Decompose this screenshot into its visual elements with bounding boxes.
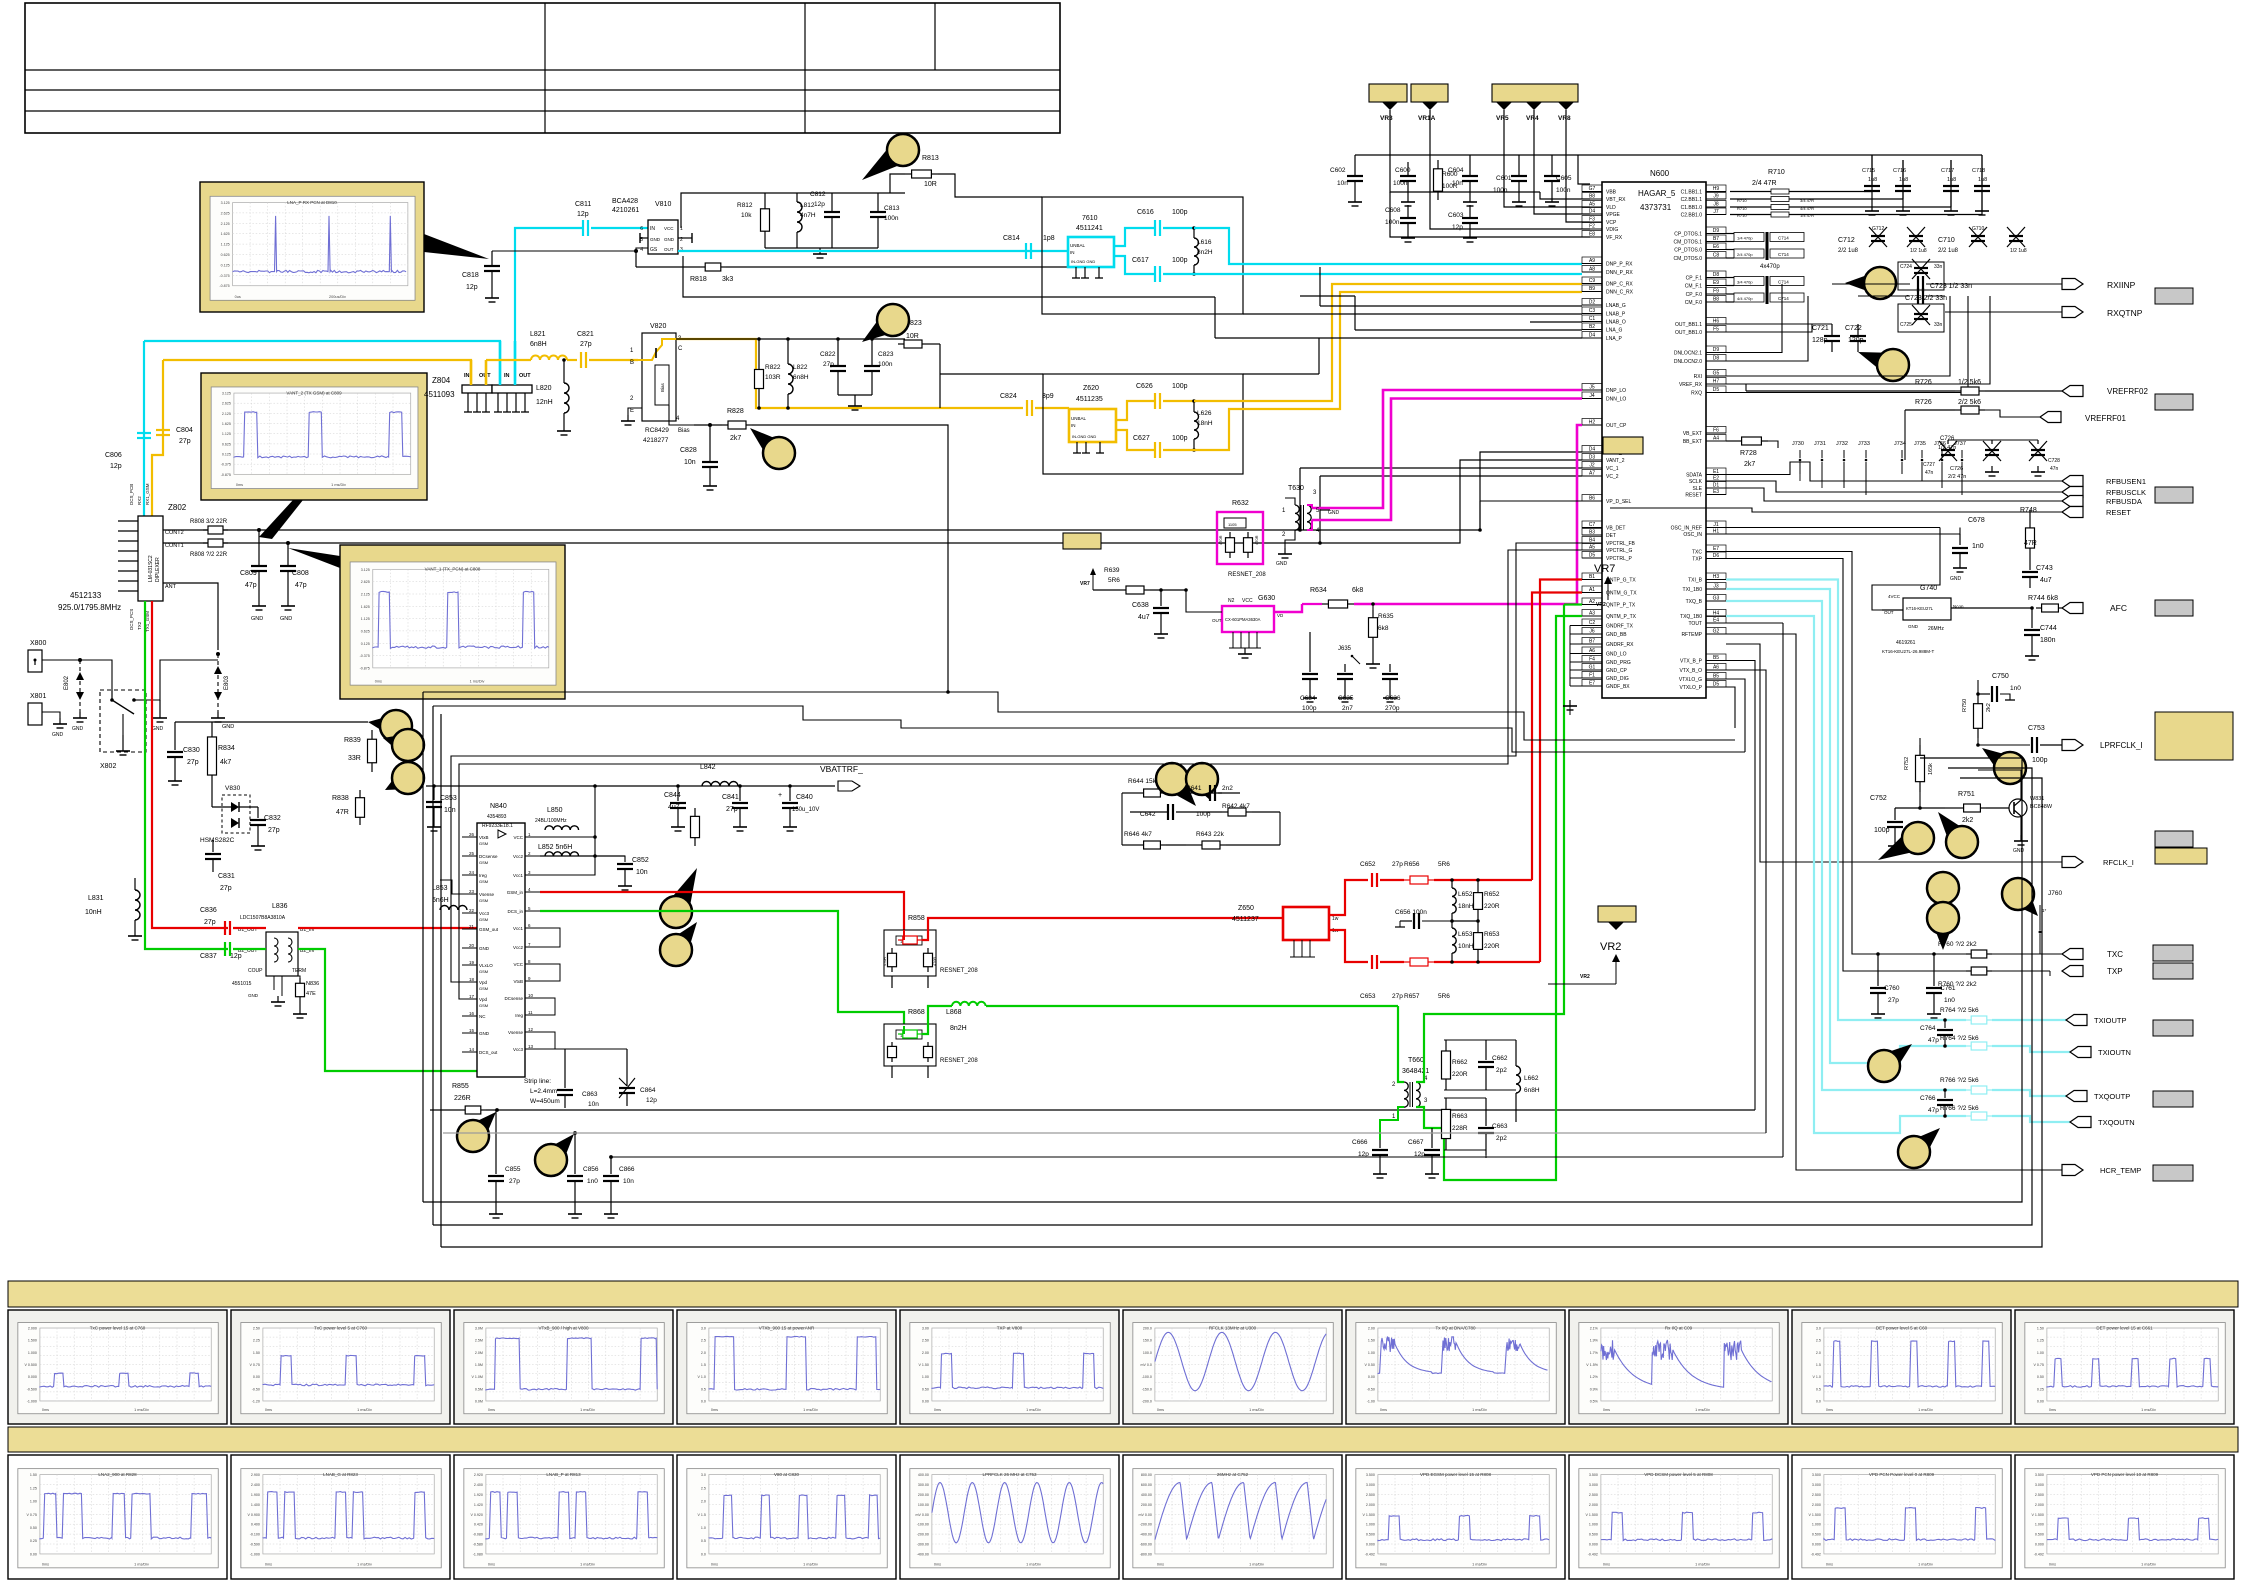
wire pale cyan TXI/TXQ: [1726, 580, 1966, 1021]
balloon near DNLOCN: [1858, 352, 1903, 380]
capacitor C824 3p9 yellow: [1026, 400, 1028, 416]
resistor R808 2/2 22R: [203, 542, 208, 544]
wire green QNTP_P: [1564, 603, 1582, 605]
svg-text:-1.080: -1.080: [473, 1552, 483, 1556]
wire red through R858: [903, 930, 905, 940]
svg-text:2.25: 2.25: [253, 1339, 260, 1343]
svg-text:0.125: 0.125: [361, 642, 370, 646]
svg-text:2.0: 2.0: [1816, 1351, 1821, 1355]
pin A7 VC_2: [1582, 475, 1602, 477]
svg-text:VtxB: VtxB: [479, 835, 489, 840]
svg-text:IN: IN: [464, 373, 470, 379]
svg-text:LNA_P: LNA_P: [1606, 336, 1623, 342]
svg-text:800.00: 800.00: [1141, 1473, 1152, 1477]
svg-text:C716: C716: [1893, 168, 1906, 174]
svg-text:H3: H3: [1713, 574, 1720, 580]
svg-text:400.00: 400.00: [918, 1473, 929, 1477]
svg-text:VLD: VLD: [1606, 205, 1616, 211]
svg-text:IN: IN: [504, 373, 510, 379]
resistor R828 2k7: [722, 424, 728, 426]
svg-text:H6: H6: [1713, 319, 1720, 325]
svg-text:D5: D5: [1713, 387, 1720, 393]
resistor R750 2k2: [1977, 694, 1979, 704]
capacitor C752 100p: [1894, 808, 1896, 820]
capacitor C822 27p: [837, 339, 839, 366]
capacitor C600 100n: [1407, 162, 1409, 176]
svg-text:SLE: SLE: [1693, 486, 1703, 492]
scope plot bottom row1 #1: TxC power level 15 at C760: [8, 1310, 227, 1424]
balloon near LPRFCLK: [1982, 748, 2022, 783]
svg-text:RX2: RX2: [137, 496, 142, 505]
pin E1 SDATA: [1706, 474, 1726, 476]
svg-text:DNN_P_RX: DNN_P_RX: [1606, 270, 1633, 276]
svg-text:R652: R652: [1484, 891, 1500, 898]
wire red to HAGAR QNT G: [1532, 593, 1582, 881]
wire OSC_IN to G740: [1872, 528, 1940, 611]
svg-text:RXI: RXI: [1694, 374, 1702, 380]
balloon near C724: [1845, 269, 1885, 298]
svg-text:C635: C635: [1338, 695, 1354, 702]
svg-text:Strip line:: Strip line:: [524, 1078, 551, 1085]
svg-text:DNLOCN2.0: DNLOCN2.0: [1674, 359, 1702, 365]
svg-text:1/4 47R: 1/4 47R: [1800, 213, 1814, 218]
svg-text:7610: 7610: [1082, 215, 1098, 222]
ref rect TXIOUT: [2153, 1020, 2193, 1036]
svg-text:C662: C662: [1492, 1055, 1508, 1062]
svg-text:TXP: TXP: [2107, 967, 2123, 976]
svg-text:J4: J4: [1589, 393, 1595, 399]
svg-text:0.25: 0.25: [2037, 1387, 2044, 1391]
output TXP: [2062, 966, 2083, 977]
svg-text:14: 14: [469, 1047, 475, 1052]
svg-text:1.00: 1.00: [2037, 1351, 2044, 1355]
svg-text:VR8: VR8: [1558, 115, 1571, 122]
svg-text:2.0: 2.0: [701, 1500, 706, 1504]
svg-text:100n: 100n: [1393, 180, 1408, 187]
svg-text:E: E: [630, 408, 634, 414]
pin B2 LNA_G: [1582, 329, 1602, 331]
svg-text:R644 15k: R644 15k: [1128, 778, 1157, 785]
svg-text:TXIOUTP: TXIOUTP: [2094, 1016, 2127, 1025]
svg-text:0.125: 0.125: [221, 263, 230, 267]
svg-text:3.125: 3.125: [222, 392, 231, 396]
capacitor C863 10n: [564, 1049, 566, 1088]
svg-text:47p: 47p: [1928, 1037, 1939, 1044]
svg-text:GND: GND: [479, 1031, 490, 1036]
svg-text:TxC power level 15 at C760: TxC power level 15 at C760: [90, 1326, 146, 1331]
svg-text:1.420: 1.420: [474, 1503, 483, 1507]
svg-text:GSM_out: GSM_out: [479, 927, 499, 932]
pin J8 C1.BB1.0: [1706, 206, 1726, 208]
svg-text:F4: F4: [1589, 657, 1595, 663]
capacitor C723 1/2 33n: [1917, 276, 1919, 292]
pin 12 Vsense: [525, 1031, 540, 1033]
svg-text:NC: NC: [479, 1014, 486, 1019]
svg-text:10n: 10n: [1337, 180, 1348, 187]
RFBUS wires: [1726, 462, 2062, 481]
svg-text:8n2H: 8n2H: [950, 1025, 967, 1032]
svg-text:2.5: 2.5: [701, 1339, 706, 1343]
svg-text:E7: E7: [1589, 681, 1595, 687]
svg-text:CM_DTOS.1: CM_DTOS.1: [1673, 240, 1702, 246]
svg-text:G712: G712: [1872, 226, 1884, 232]
svg-text:C1.BB1.1: C1.BB1.1: [1681, 190, 1703, 196]
svg-text:D5: D5: [1589, 553, 1596, 559]
svg-text:GS: GS: [650, 247, 658, 253]
gray bus: [443, 1132, 1766, 1134]
scope plot bottom row1 #3: VTxB_900 / high at V800: [454, 1310, 673, 1424]
pin 10 DCsense: [525, 997, 540, 999]
svg-text:VCC: VCC: [513, 962, 523, 967]
svg-text:B5: B5: [1713, 674, 1719, 680]
balloon near R751: [1938, 812, 1976, 855]
svg-text:C832: C832: [264, 815, 281, 822]
svg-text:0.50: 0.50: [922, 1387, 929, 1391]
svg-text:R657: R657: [1404, 993, 1420, 1000]
pin J9 C2.BB1.1: [1706, 198, 1726, 200]
capacitor C723 2/2 33n: [1917, 288, 1919, 304]
svg-text:C823: C823: [878, 351, 894, 358]
svg-text:1.2%: 1.2%: [1590, 1375, 1599, 1379]
IC N840 RF9233 PA: [477, 823, 525, 1077]
wire LNAB_P bus: [1243, 313, 1582, 315]
svg-text:12: 12: [528, 1027, 534, 1032]
svg-text:DET power level 5 at C60: DET power level 5 at C60: [1876, 1326, 1928, 1331]
svg-text:RXQ: RXQ: [1691, 391, 1702, 397]
scope plot bottom row1 #10: DET power level 15 at C661: [2015, 1310, 2234, 1424]
svg-text:GND: GND: [1950, 576, 1962, 582]
svg-text:RESNET_208: RESNET_208: [1228, 572, 1266, 578]
svg-text:QNTM_P_TX: QNTM_P_TX: [1606, 614, 1637, 620]
svg-text:GSM: GSM: [479, 860, 488, 865]
svg-text:0.00: 0.00: [1368, 1375, 1375, 1379]
svg-text:2k7: 2k7: [730, 435, 741, 442]
svg-text:C824: C824: [1000, 393, 1017, 400]
svg-text:0.0: 0.0: [1816, 1399, 1821, 1403]
svg-text:VTX_B_O: VTX_B_O: [1679, 668, 1702, 674]
resistor R818 3k3: [636, 266, 700, 268]
balun 7610 4511241: [1068, 237, 1114, 267]
svg-text:1.920: 1.920: [474, 1493, 483, 1497]
svg-text:C653: C653: [1360, 993, 1376, 1000]
svg-text:12p: 12p: [466, 284, 478, 291]
svg-text:R635: R635: [1378, 613, 1394, 620]
svg-text:DNP_LO: DNP_LO: [1606, 388, 1626, 394]
svg-text:4k7: 4k7: [220, 759, 231, 766]
svg-text:Z804: Z804: [432, 376, 451, 385]
resistor (47R) near C853: [694, 808, 696, 816]
inductor L831 10nH: [134, 878, 136, 890]
svg-text:0.000: 0.000: [2035, 1543, 2044, 1547]
svg-text:L853: L853: [432, 885, 448, 892]
svg-text:4u7: 4u7: [2040, 577, 2052, 584]
svg-text:VPD EGSM power level 15 at R80: VPD EGSM power level 15 at R808: [1420, 1472, 1492, 1477]
pin B3 DET: [1582, 534, 1602, 536]
svg-text:R663: R663: [1452, 1113, 1468, 1120]
wire HCR_TEMP: [1726, 634, 2062, 1170]
bottom yellow bar 2: [8, 1427, 2238, 1452]
svg-text:C836: C836: [200, 907, 217, 914]
svg-text:0.500: 0.500: [1812, 1533, 1821, 1537]
svg-text:G710: G710: [1972, 226, 1984, 232]
svg-text:2.500: 2.500: [1812, 1493, 1821, 1497]
svg-text:GND: GND: [222, 724, 234, 730]
stair buses mid: [423, 692, 1735, 740]
capacitor C616 100p cyan: [1114, 228, 1155, 246]
svg-text:25: 25: [469, 851, 475, 856]
wires DNLOCN: [1726, 284, 1782, 353]
pin D9 DNLOCN2.1: [1706, 352, 1726, 354]
svg-text:0.400: 0.400: [251, 1523, 260, 1527]
IC N600 HAGAR_5 4373731: [1602, 182, 1706, 698]
svg-text:100p: 100p: [2032, 757, 2048, 764]
svg-text:A8: A8: [1589, 267, 1595, 273]
svg-text:C715: C715: [1862, 168, 1875, 174]
net flag VR1A: [1411, 84, 1448, 102]
svg-text:4n7H: 4n7H: [800, 212, 816, 219]
scope plot VANT_1 TX_PCN at C808: [340, 545, 565, 699]
svg-text:27p: 27p: [1392, 993, 1403, 1000]
svg-text:GND: GND: [664, 237, 675, 242]
pin B5 VTXLO_G: [1706, 678, 1726, 680]
svg-text:2.1%: 2.1%: [1590, 1327, 1599, 1331]
svg-text:CONT1: CONT1: [165, 543, 184, 549]
output RFBUSDA: [2062, 496, 2083, 507]
svg-text:1/2 1u8: 1/2 1u8: [1910, 248, 1927, 254]
svg-text:C634: C634: [1300, 695, 1316, 702]
svg-text:1 ms/Div: 1 ms/Div: [1249, 1562, 1264, 1566]
svg-text:4/4 470p: 4/4 470p: [1737, 296, 1753, 301]
svg-text:2.00: 2.00: [1368, 1327, 1375, 1331]
svg-text:C608: C608: [1385, 207, 1401, 214]
ref rect TXP: [2153, 963, 2193, 979]
svg-text:12p: 12p: [814, 201, 825, 208]
svg-text:3p9: 3p9: [1042, 393, 1054, 400]
svg-text:R639: R639: [1104, 567, 1120, 574]
callout wedge from plot3 to C808 junction: [288, 548, 340, 568]
svg-text:V 1.0M: V 1.0M: [472, 1375, 483, 1379]
svg-text:DCS_out: DCS_out: [479, 1050, 498, 1055]
svg-text:10n: 10n: [684, 459, 696, 466]
svg-text:CP_DTOS.0: CP_DTOS.0: [1674, 248, 1702, 254]
svg-text:10: 10: [528, 993, 534, 998]
svg-text:1.000: 1.000: [28, 1351, 37, 1355]
svg-text:0.9%: 0.9%: [1590, 1387, 1599, 1391]
svg-text:1n0: 1n0: [1972, 543, 1984, 550]
output RFBUSEN1: [2062, 476, 2083, 487]
svg-text:4619261: 4619261: [1896, 640, 1916, 646]
pin 21 GSM_out: [462, 928, 477, 930]
svg-text:0.00: 0.00: [2037, 1399, 2044, 1403]
resistor R710 1/4 47R: [1730, 214, 1982, 216]
svg-text:X802: X802: [100, 763, 116, 770]
svg-text:165k: 165k: [1928, 763, 1934, 775]
svg-text:0.00: 0.00: [253, 1375, 260, 1379]
svg-text:0.420: 0.420: [474, 1523, 483, 1527]
svg-text:2.400: 2.400: [474, 1483, 483, 1487]
svg-text:R838: R838: [332, 795, 349, 802]
svg-text:C600: C600: [1395, 167, 1411, 174]
svg-text:L652: L652: [1458, 891, 1473, 898]
jumper E802 dashed: [79, 660, 81, 712]
wire VCC to filter rail: [681, 193, 905, 228]
svg-text:100p: 100p: [1172, 257, 1188, 264]
coupler ground/term: [273, 976, 275, 990]
svg-text:V 1.500: V 1.500: [1586, 1513, 1598, 1517]
output AFC: [2062, 603, 2083, 614]
capacitor C626 100p yellow: [1116, 401, 1155, 420]
svg-text:3.0: 3.0: [701, 1327, 706, 1331]
svg-text:220R: 220R: [1452, 1071, 1468, 1078]
svg-text:CP_F.0: CP_F.0: [1686, 292, 1703, 298]
svg-text:1 ms/Div: 1 ms/Div: [1695, 1562, 1710, 1566]
svg-text:C1: C1: [1589, 316, 1596, 322]
svg-text:Vcc3: Vcc3: [513, 1047, 524, 1052]
svg-text:2.125: 2.125: [361, 592, 370, 596]
svg-text:33n: 33n: [1934, 322, 1943, 328]
svg-text:-200.0: -200.0: [1142, 1399, 1152, 1403]
capacitor C603 12p: [1469, 205, 1471, 218]
svg-text:R643 22k: R643 22k: [1196, 831, 1225, 838]
pin H6 OUT_BB1.1: [1706, 323, 1726, 325]
svg-text:IN-GND GND: IN-GND GND: [1072, 434, 1096, 439]
svg-text:LPRFCLK_I: LPRFCLK_I: [2100, 741, 2143, 750]
balun Z620 4511235: [1069, 409, 1116, 442]
svg-text:G7: G7: [1589, 186, 1596, 192]
svg-text:VREFRF01: VREFRF01: [2085, 414, 2126, 423]
svg-text:B7: B7: [1713, 236, 1719, 242]
pin C1 LNAB_O: [1582, 321, 1602, 323]
svg-text:-0.50: -0.50: [1367, 1387, 1375, 1391]
svg-text:B5: B5: [1713, 655, 1719, 661]
wire VC_1: [1300, 467, 1582, 469]
svg-text:LNA2_900 at R828: LNA2_900 at R828: [98, 1472, 137, 1477]
svg-text:1.125: 1.125: [361, 617, 370, 621]
svg-text:F5: F5: [1713, 327, 1719, 333]
svg-text:3/4 47R: 3/4 47R: [1800, 198, 1814, 203]
svg-text:VCC: VCC: [1242, 598, 1253, 604]
svg-text:27p: 27p: [187, 759, 199, 766]
module box around 7610 balun: [1042, 197, 1243, 314]
svg-text:2/2 1u8: 2/2 1u8: [1938, 248, 1959, 254]
svg-text:1.0: 1.0: [701, 1526, 706, 1530]
svg-text:1n0: 1n0: [587, 1178, 598, 1185]
svg-text:220R: 220R: [1484, 903, 1500, 910]
svg-text:2.625: 2.625: [221, 211, 230, 215]
scope plot bottom row2 #3: LNAB_P at R813: [454, 1455, 673, 1579]
svg-text:GSM: GSM: [479, 969, 488, 974]
svg-text:1 ms/Div: 1 ms/Div: [580, 1562, 595, 1566]
svg-text:2.500: 2.500: [2035, 1493, 2044, 1497]
pin A2 QNTP_P_TX: [1582, 604, 1602, 606]
svg-text:J760: J760: [2048, 890, 2062, 897]
svg-text:J1: J1: [1713, 522, 1719, 528]
balloon on gray bus: [537, 1134, 574, 1173]
svg-text:R710: R710: [1737, 206, 1747, 211]
svg-text:H7: H7: [1713, 379, 1720, 385]
jumper E803 dashed: [217, 654, 219, 712]
svg-text:R868: R868: [908, 1009, 925, 1016]
svg-text:2.500: 2.500: [1366, 1493, 1375, 1497]
svg-text:L=2.4mm: L=2.4mm: [530, 1088, 557, 1095]
svg-text:C9: C9: [1589, 278, 1596, 284]
svg-text:C812: C812: [810, 191, 826, 198]
pin F4 GND_PRG: [1582, 661, 1602, 663]
pin B8 CM_F.0: [1706, 301, 1726, 303]
svg-text:C604: C604: [1448, 167, 1464, 174]
svg-text:-0.50: -0.50: [252, 1387, 260, 1391]
svg-text:IN: IN: [1070, 250, 1075, 255]
svg-text:6: 6: [640, 226, 643, 232]
svg-text:-0.875: -0.875: [221, 473, 231, 477]
svg-text:H4: H4: [1713, 611, 1720, 617]
svg-text:RESET: RESET: [1685, 493, 1702, 499]
svg-text:0ms: 0ms: [2049, 1408, 2056, 1412]
svg-text:RESNET_208: RESNET_208: [940, 1058, 978, 1064]
svg-text:C656 100n: C656 100n: [1395, 909, 1427, 916]
svg-text:D8: D8: [1713, 356, 1720, 362]
svg-text:+: +: [778, 792, 782, 799]
pin D6 TXP: [1706, 558, 1726, 560]
svg-text:180n: 180n: [2040, 637, 2056, 644]
svg-text:D4: D4: [1589, 447, 1596, 453]
resistor R600 100R: [1437, 160, 1439, 169]
svg-text:-0.100: -0.100: [250, 1533, 260, 1537]
svg-text:RFBUSCLK: RFBUSCLK: [2106, 488, 2146, 497]
svg-text:226R: 226R: [454, 1095, 471, 1102]
svg-text:0.000: 0.000: [1366, 1543, 1375, 1547]
svg-text:0us: 0us: [235, 295, 241, 299]
resistor R822 103R: [758, 339, 760, 362]
svg-text:C728: C728: [2048, 458, 2060, 464]
svg-text:0ms: 0ms: [42, 1562, 49, 1566]
svg-text:GSM_in: GSM_in: [507, 890, 524, 895]
svg-text:J635: J635: [1338, 646, 1352, 652]
svg-text:C821: C821: [577, 331, 594, 338]
pin G2 RFTEMP: [1706, 633, 1726, 635]
svg-text:8n2H: 8n2H: [1197, 249, 1213, 256]
svg-text:1.25: 1.25: [2037, 1339, 2044, 1343]
svg-text:26MHz: 26MHz: [1928, 626, 1944, 632]
svg-text:10n: 10n: [588, 1101, 599, 1108]
wires VR rail to HAGAR top pins: [1578, 155, 1590, 184]
svg-text:0.00: 0.00: [30, 1552, 37, 1556]
svg-text:RFBUSEN1: RFBUSEN1: [2106, 477, 2146, 486]
svg-text:2.5: 2.5: [701, 1486, 706, 1490]
svg-text:C743: C743: [2036, 565, 2053, 572]
svg-text:GSM: GSM: [479, 986, 488, 991]
svg-text:R748: R748: [2020, 507, 2037, 514]
svg-text:6k8: 6k8: [1352, 587, 1363, 594]
svg-text:GND: GND: [152, 726, 164, 732]
capacitor C844 4u7: [677, 786, 679, 801]
wire LNA_G bus: [1355, 329, 1582, 331]
svg-text:RFCLK 13MHz at U300: RFCLK 13MHz at U300: [1209, 1326, 1257, 1331]
svg-text:2/2 5k6: 2/2 5k6: [1958, 399, 1981, 406]
svg-text:VF_RX: VF_RX: [1606, 235, 1623, 241]
svg-text:VTxB_900 / high at V800: VTxB_900 / high at V800: [538, 1326, 589, 1331]
pin D4 VPGE: [1582, 213, 1602, 215]
pin F5 OUT_BB1.0: [1706, 331, 1726, 333]
svg-text:3.0: 3.0: [1816, 1327, 1821, 1331]
wire yellow TX GSM from diplexer to Z804 IN1: [163, 360, 471, 381]
svg-text:B8: B8: [1589, 194, 1595, 200]
svg-text:V810: V810: [655, 201, 671, 208]
svg-text:C7: C7: [1589, 522, 1596, 528]
svg-text:B8: B8: [1713, 297, 1719, 303]
svg-text:B9: B9: [1589, 286, 1595, 292]
svg-text:RFCLK_I: RFCLK_I: [2103, 858, 2134, 867]
